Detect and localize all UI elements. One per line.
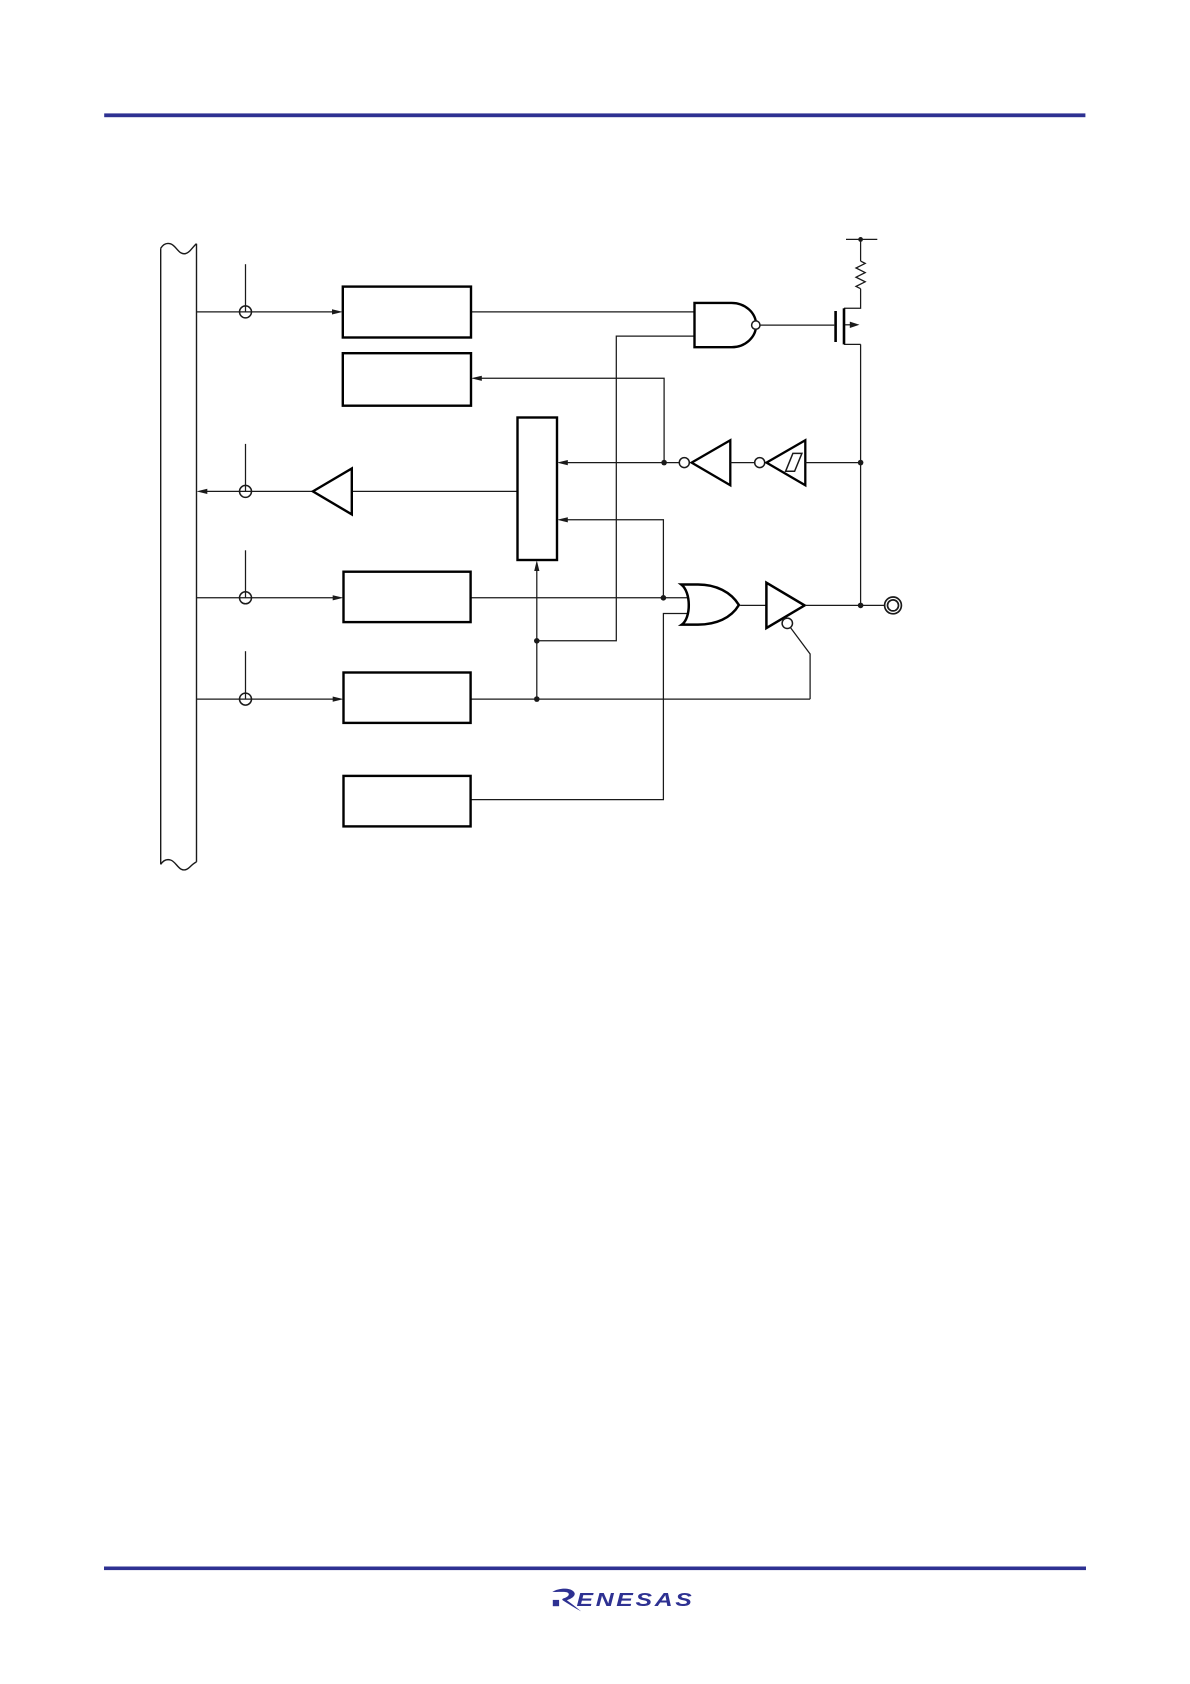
tristate output buffer U7 (triangle) [766,583,804,628]
internal data bus (left line) [160,248,162,864]
internal data bus (right line) [196,244,198,862]
register box4 [344,673,471,723]
MOSFET Q1 bulk arrowhead [850,322,860,328]
I/O pin pad (outer circle) [885,597,902,614]
svg-text:ENESAS: ENESAS [577,1589,695,1610]
schmitt trigger U5 (triangle pointing left) [767,440,806,485]
pad circle 1 (bus tap row1) [240,306,252,318]
schmitt buffer U5 bubble [755,458,765,468]
OR gate U6 [681,585,739,625]
MOSFET Q1 bulk line [845,324,852,326]
pad circle 4 (bus tap row4) [240,693,252,705]
wire: selector input 2 from PDR net [566,520,663,598]
wire: pin net vertical (source to pad row) [860,344,862,605]
register box3 [344,572,471,622]
wire: into box2 from vertical riser [480,378,664,462]
wire row3: box3 output to OR gate input A [471,597,688,599]
MOSFET Q1 source line [844,343,861,345]
wire: branch to NAND input B [537,336,695,641]
arrowhead into selector input 2 [557,517,568,522]
bus top break squiggle [161,243,197,253]
inverter U4 bubble [679,458,689,468]
arrowhead into selector input 1 [557,460,568,465]
register box1 [343,287,471,338]
junction dot (tristate output / pin net) [858,603,864,609]
NAND gate U2 [695,303,757,347]
arrowhead into box2 [471,376,482,381]
header rule [104,113,1085,117]
Renesas logo [552,1589,694,1612]
wire row4: box4 output to tristate control corner [471,698,810,700]
wire row4: bus to pad circle 4 [197,698,335,700]
arrowhead into box4 [333,697,344,702]
junction dot (row3 / selector riser) [661,595,667,601]
tick above pad circle 1 [245,264,247,312]
selector tall box [518,418,558,561]
wire: box1 output to NAND input A [471,311,695,313]
read buffer U3 (triangle pointing left) [313,469,352,515]
wire: pin net to schmitt input [805,462,860,464]
wire: tristate control from row4 [790,628,810,700]
register box5 [344,776,471,827]
arrowhead into box1 [332,309,343,314]
tick above pad circle 4 [245,651,247,699]
tick above pad circle 3 [245,550,247,598]
wire row1: bus to pad circle 1 [197,311,334,313]
I/O pin pad (inner circle) [888,600,899,611]
junction dot (riser / NAND feed branch) [534,638,540,644]
wire: schmitt bubble to inverter [730,462,754,464]
NAND output bubble [752,321,760,329]
arrowhead into selector bottom [534,560,539,571]
wire row2: read buffer input from selector box [352,490,518,492]
wire: NAND output to MOSFET gate [760,324,834,326]
footer rule [104,1567,1086,1571]
wire row2: buffer output to bus [205,490,313,492]
pad circle 2 (bus tap row2) [240,485,252,497]
wire: resistor to MOSFET drain [844,289,861,309]
MOSFET Q1 gate bar [834,311,837,342]
wire: row4 riser up into selector bottom [536,568,538,699]
bus bottom break squiggle [161,860,197,870]
inverter U4 (triangle pointing left) [692,440,731,485]
power supply rail [846,238,877,240]
register box2 [343,353,471,406]
tick above pad circle 2 [245,444,247,492]
junction dot (pin net / schmitt row) [858,460,864,466]
schmitt hysteresis symbol [786,453,802,471]
junction dot (row4 / selector feed riser) [534,696,540,702]
arrowhead into bus row2 [197,489,208,494]
wire: power rail to resistor [860,239,862,261]
wire: OR output to tristate input [740,604,766,606]
wire: tristate output to pin pad [805,604,884,606]
pull-up resistor R1 [856,261,865,289]
wire row3: bus to pad circle 3 [197,597,335,599]
tristate control bubble [782,618,792,628]
pad circle 3 (bus tap row3) [240,592,252,604]
MOSFET Q1 channel bar [843,308,846,344]
arrowhead into box3 [333,595,344,600]
wire: inverter output row into selector [566,462,679,464]
junction dot (box2 riser / inverter row) [661,460,667,466]
wire: box5 output to OR gate input B [471,614,688,800]
power rail junction dot [858,237,863,242]
